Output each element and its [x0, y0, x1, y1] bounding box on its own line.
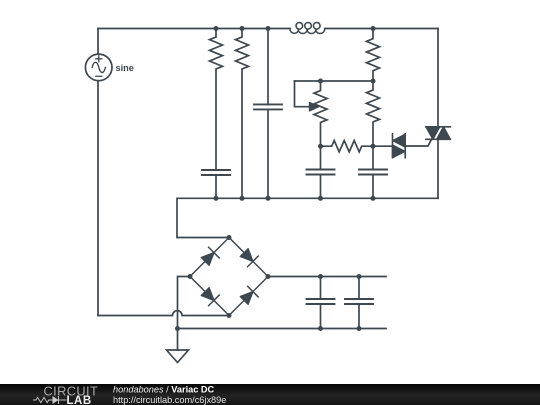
resistor R5 horizontal	[321, 141, 374, 152]
logo circuitlab	[33, 384, 98, 405]
inductor L1	[290, 22, 325, 33]
capacitor C2	[254, 29, 282, 199]
wire DC minus rail	[178, 328, 387, 330]
resistor R2	[236, 29, 249, 199]
diac D5	[373, 134, 432, 158]
footer title text	[113, 385, 226, 405]
diode D2 bridge top-right	[229, 238, 268, 277]
diode D4 bridge bottom-right	[229, 277, 268, 316]
wire mid rail	[177, 198, 438, 237]
wire right vertical triac branch	[437, 29, 439, 199]
ground	[167, 329, 189, 363]
label sine	[116, 63, 134, 73]
capacitor C1 below R1	[202, 170, 230, 198]
wire upper horizontal	[295, 80, 374, 82]
resistor R1	[210, 29, 223, 171]
capacitor C5	[307, 277, 335, 329]
resistor R3	[367, 29, 380, 82]
diode D1 bridge top-left	[190, 238, 229, 277]
svg-text:http://circuitlab.com/c6jx89e: http://circuitlab.com/c6jx89e	[113, 395, 226, 405]
capacitor C6	[345, 277, 373, 329]
wire bottom AC to bridge with hop	[98, 311, 229, 316]
wire DC plus rail	[268, 276, 386, 278]
potentiometer R6	[295, 81, 328, 146]
voltage source V1 sine	[85, 54, 112, 81]
capacitor C4	[359, 146, 387, 198]
diode D3 bridge bottom-left	[190, 277, 229, 316]
triac Q1	[426, 127, 451, 140]
wire bridge left vertex to ground rail	[178, 277, 191, 329]
resistor R4	[367, 81, 380, 146]
wire left vertical from source	[97, 29, 99, 316]
svg-text:hondabones / Variac DC: hondabones / Variac DC	[113, 385, 215, 395]
footer bar	[0, 384, 540, 405]
wire top rail	[98, 28, 438, 30]
svg-text:LAB: LAB	[67, 395, 92, 405]
capacitor C3 below pot	[307, 146, 335, 198]
svg-text:sine: sine	[116, 63, 134, 73]
